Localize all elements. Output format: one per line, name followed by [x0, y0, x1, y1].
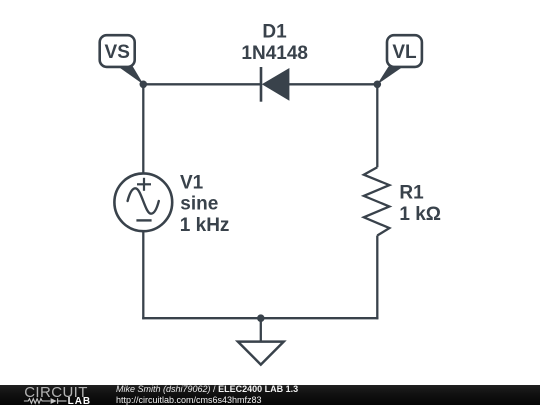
svg-text:VL: VL — [392, 42, 417, 63]
junction at node VS — [140, 81, 148, 89]
credit text — [116, 384, 298, 404]
junction at ground node — [257, 314, 265, 322]
wire: VS node to D1 cathode (top rail left) — [143, 83, 261, 85]
diode D1 — [261, 67, 289, 102]
junction at node VL — [374, 81, 382, 89]
svg-text:LAB: LAB — [68, 396, 92, 406]
wire: right rail upper (VL node down to R1 top) — [376, 84, 378, 167]
svg-text:D1: D1 — [262, 22, 287, 43]
voltage source V1 — [114, 173, 172, 231]
wire: left rail upper (VS node down to V1 top) — [142, 84, 144, 174]
node VL flag — [377, 35, 422, 84]
wire: ground stub — [260, 318, 262, 341]
svg-text:1N4148: 1N4148 — [241, 43, 308, 64]
CircuitLab logo — [23, 385, 103, 406]
wire: D1 anode to VL node (top rail right) — [289, 83, 377, 85]
wire: bottom rail — [142, 317, 378, 319]
svg-text:1 kHz: 1 kHz — [180, 215, 230, 236]
svg-text:R1: R1 — [399, 183, 424, 204]
wire: right rail lower (R1 bottom to bottom-right corner) — [376, 236, 378, 320]
wire: left rail lower (V1 bottom to bottom-left corner) — [142, 231, 144, 319]
resistor R1 — [364, 167, 390, 235]
footer bar — [0, 385, 540, 405]
svg-text:VS: VS — [105, 42, 130, 63]
svg-text:sine: sine — [180, 194, 218, 215]
svg-text:1 kΩ: 1 kΩ — [399, 204, 441, 225]
svg-text:V1: V1 — [180, 172, 204, 193]
ground — [238, 342, 284, 365]
node VS flag — [100, 35, 144, 84]
